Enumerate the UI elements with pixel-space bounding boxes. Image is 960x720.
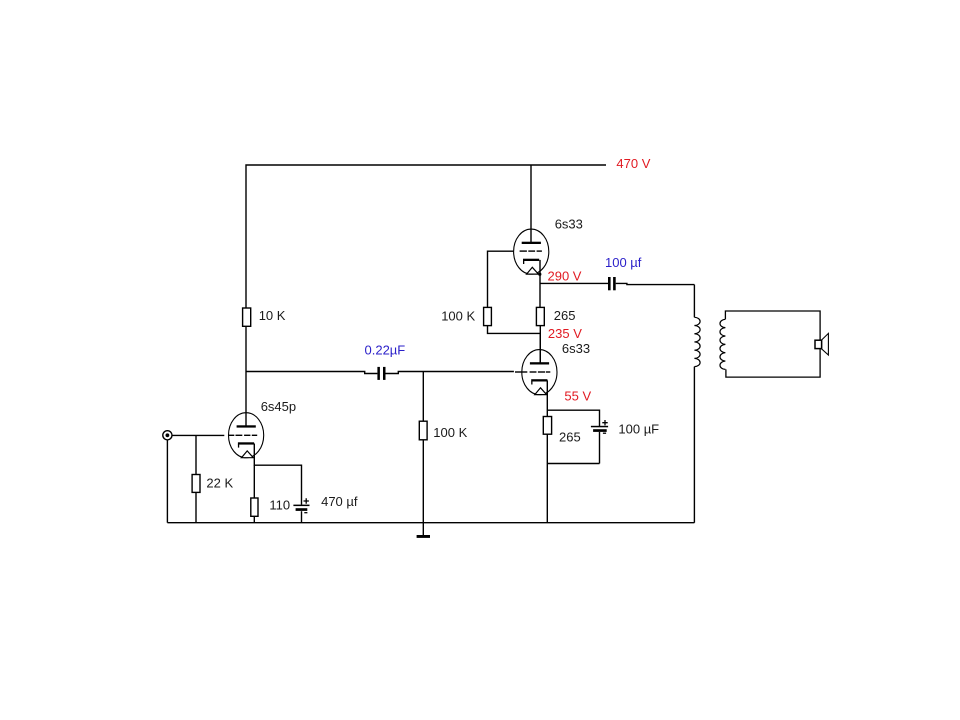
svg-text:235 V: 235 V	[548, 326, 582, 341]
svg-text:22 K: 22 K	[206, 475, 233, 490]
svg-text:470 V: 470 V	[616, 156, 650, 171]
svg-text:6s45p: 6s45p	[261, 399, 296, 414]
svg-text:110: 110	[269, 498, 290, 513]
svg-text:6s33: 6s33	[562, 341, 590, 356]
svg-text:0.22µF: 0.22µF	[365, 342, 406, 357]
svg-text:55 V: 55 V	[564, 389, 591, 404]
svg-text:100 µF: 100 µF	[618, 421, 659, 436]
svg-text:100 µf: 100 µf	[605, 255, 642, 270]
svg-text:6s33: 6s33	[555, 217, 583, 232]
svg-text:265: 265	[554, 308, 576, 323]
svg-text:265: 265	[559, 430, 581, 445]
svg-text:290 V: 290 V	[548, 269, 582, 284]
svg-text:10 K: 10 K	[259, 308, 286, 323]
svg-text:100 K: 100 K	[441, 309, 475, 324]
svg-text:470 µf: 470 µf	[321, 494, 358, 509]
svg-text:100 K: 100 K	[433, 425, 467, 440]
